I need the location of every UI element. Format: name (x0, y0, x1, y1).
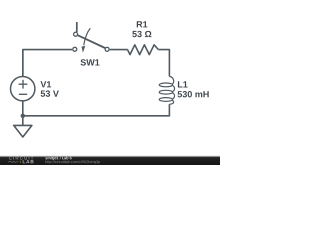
switch left terminal (73, 47, 77, 51)
wire: left vertical and top wire to switch left terminal (23, 50, 72, 77)
switch right terminal (105, 47, 109, 51)
wire: resistor to top-right corner, down to inductor (158, 50, 169, 77)
switch SW1 (73, 22, 109, 53)
logo text CIRCUIT (9, 156, 33, 159)
label V1 (40, 81, 51, 87)
wire: junction to ground (22, 116, 24, 126)
label L1 (178, 81, 188, 87)
wire: switch right terminal to resistor (110, 49, 128, 51)
logo resistor zigzag (8, 161, 18, 163)
value 53 ohm (132, 31, 151, 37)
logo text LAB (23, 160, 34, 163)
value 530 mH (178, 91, 209, 97)
value 53 V (41, 90, 59, 96)
watermark bar (0, 155, 220, 165)
switch top terminal (74, 32, 78, 36)
wire: inductor bottom, bottom-right corner, bottom wire (23, 104, 170, 116)
resistor R1 (128, 45, 159, 55)
wire: V1 bottom lead to junction (22, 101, 24, 116)
switch top throw stub (76, 22, 78, 32)
label SW1 (81, 59, 100, 65)
junction node (21, 114, 25, 118)
inductor L1 (159, 76, 174, 104)
switch lever (78, 35, 105, 48)
voltage source V1 (11, 77, 35, 101)
watermark url (46, 160, 100, 164)
label R1 (137, 21, 148, 27)
logo lightning bolt (19, 160, 21, 163)
ground (14, 125, 32, 137)
watermark user/lab (45, 157, 71, 161)
switch actuation arrow (84, 28, 91, 45)
wire: V1 top lead (22, 50, 24, 77)
